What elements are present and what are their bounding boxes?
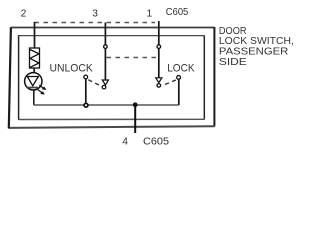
unlock blade arrowhead (102, 80, 108, 85)
inner box of door lock switch (18, 35, 204, 119)
wire unlock contact to bus (85, 79, 87, 105)
svg-text:LOCK: LOCK (167, 63, 195, 75)
svg-text:C605: C605 (166, 7, 189, 18)
wire pin 1 to lock switch blade (158, 21, 160, 78)
wire LED to bottom bus (33, 90, 35, 105)
top dashed connector line C605 (35, 22, 156, 24)
wire pin 4 down from bus (134, 105, 136, 133)
pivot ring on pin 1 wire (157, 45, 161, 49)
wire resistor to LED (33, 68, 35, 73)
svg-text:UNLOCK: UNLOCK (50, 63, 94, 75)
wire pin 2 to resistor (34, 22, 36, 48)
svg-text:1: 1 (147, 8, 153, 19)
wire lock contact to bus (178, 79, 180, 105)
junction dot at pin 4 node (133, 102, 138, 107)
lock blade contact circle (157, 84, 161, 88)
bottom bus wire (34, 104, 179, 106)
LED emission arrow 2 (38, 90, 45, 95)
resistor R1 (illumination) (30, 48, 40, 68)
inner dashed linkage line (107, 57, 157, 59)
svg-text:4: 4 (122, 136, 128, 147)
LED D1 indicator (25, 73, 42, 90)
lock blade arrowhead (156, 78, 162, 83)
unlock fixed contact circle (84, 75, 88, 79)
svg-text:2: 2 (21, 8, 27, 19)
unlock blade contact circle (102, 85, 106, 89)
svg-text:3: 3 (92, 8, 98, 19)
lock switch travel dashes (162, 80, 176, 86)
junction ring at bus (node) (84, 103, 88, 107)
LED emission arrow 1 (39, 85, 46, 90)
pivot ring on pin 3 wire (104, 45, 108, 49)
outer box of door lock switch (9, 27, 215, 128)
svg-text:SIDE: SIDE (219, 57, 247, 68)
component name text block (219, 26, 294, 68)
svg-text:C605: C605 (143, 136, 169, 147)
wire pin 3 to unlock switch blade (104, 23, 106, 81)
lock fixed contact circle (177, 76, 181, 80)
unlock switch travel dashes (88, 80, 101, 86)
